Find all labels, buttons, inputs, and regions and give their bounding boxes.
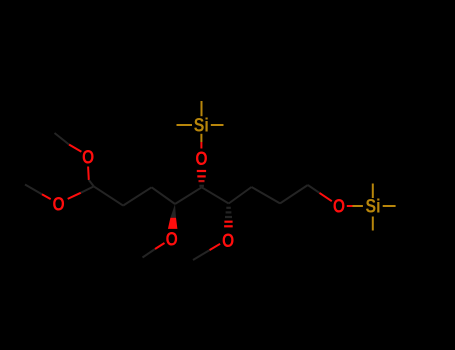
- methyl bond on acetal top O (gray half): [55, 133, 70, 145]
- bond C1 to acetal left O (red half): [68, 193, 81, 199]
- svg-text:Si: Si: [366, 196, 381, 217]
- bond C1 to acetal top O (red half): [87, 167, 90, 181]
- methyl bond on acetal left O (red half): [42, 194, 51, 199]
- hashed wedge dash (gray): [226, 211, 232, 213]
- hashed wedge dash nearest O (red): [197, 170, 206, 172]
- top Si methyl bond up: [201, 101, 203, 116]
- right Si methyl bond up: [372, 184, 374, 199]
- wire: C5-C6 backbone bond: [229, 187, 252, 204]
- bond C1 to acetal left O (gray half): [81, 186, 94, 192]
- wire: C6-C7 backbone bond: [252, 187, 281, 203]
- svg-text:O: O: [166, 229, 178, 250]
- hashed wedge dash (dark red): [199, 180, 205, 182]
- wire: C7-C8 backbone bond: [280, 185, 308, 203]
- OMe2 methyl bond (gray half): [193, 250, 210, 260]
- solid wedge C3p to OMe1 (red half): [168, 218, 178, 229]
- wire: C4-C5 backbone bond: [202, 187, 229, 203]
- top Si methyl bond left: [177, 124, 193, 126]
- hashed wedge C4 to OTMS O: dash near C4 (gray): [199, 185, 204, 187]
- hashed wedge dash (gray): [225, 216, 232, 218]
- svg-text:O: O: [195, 149, 207, 170]
- svg-text:O: O: [53, 194, 65, 215]
- hashed wedge dash nearest O (red): [224, 225, 233, 227]
- right Si methyl bond right: [383, 205, 396, 207]
- OMe2 methyl bond (red half): [210, 244, 221, 250]
- svg-text:O: O: [222, 231, 234, 252]
- methyl bond on acetal left O (gray half): [25, 185, 42, 195]
- wire: C3p-C4 backbone bond: [175, 187, 202, 204]
- O-Si bond top (olive half): [200, 134, 202, 142]
- svg-text:O: O: [333, 197, 345, 218]
- OMe1 methyl bond (gray half): [143, 249, 156, 258]
- methyl bond on acetal top O (red half): [69, 145, 81, 152]
- bond C1 to acetal top O (gray half): [89, 180, 94, 186]
- top Si methyl bond right: [211, 124, 224, 126]
- wire: C2-C3 backbone bond: [123, 187, 152, 205]
- solid wedge C3p to OMe1 (gray half): [170, 204, 176, 218]
- right Si methyl bond down: [372, 217, 374, 231]
- O-Si bond right (red half): [347, 205, 353, 207]
- svg-text:Si: Si: [194, 116, 209, 137]
- wire: C1-C2 backbone bond: [94, 186, 123, 205]
- hashed wedge C5 to OMe2: dash near C5 (gray): [226, 207, 231, 209]
- hashed wedge dash (red): [224, 221, 232, 223]
- bond C8 to right O (red half): [320, 193, 332, 201]
- svg-text:O: O: [82, 147, 94, 168]
- O-Si bond right (olive half): [353, 205, 363, 207]
- OMe1 methyl bond (red half): [155, 243, 165, 249]
- hashed wedge dash (red): [197, 175, 205, 177]
- O-Si bond top (red half): [200, 142, 202, 149]
- bond C8 to right O (gray half): [308, 185, 320, 193]
- wire: C3-C3p backbone bond: [152, 187, 175, 204]
